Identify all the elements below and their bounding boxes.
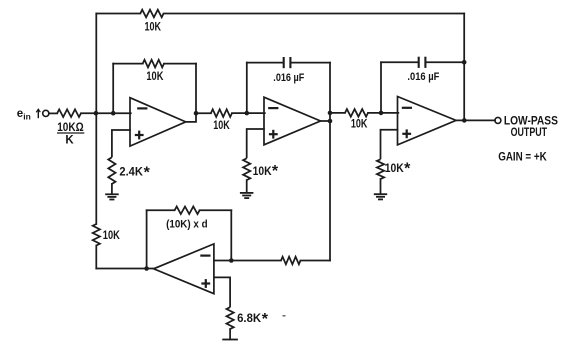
wire op1 feedback top-right segment bbox=[164, 63, 196, 65]
resistor 6.8K* bbox=[227, 307, 234, 329]
op-amp U2 triangle bbox=[264, 97, 321, 145]
wire op4 minus input bbox=[214, 260, 281, 262]
resistor 10K (bottom left) bbox=[93, 224, 100, 246]
wire op1 feedback up-left bbox=[112, 64, 114, 114]
input terminal circle bbox=[43, 110, 49, 116]
wire cap2 up-left bbox=[246, 63, 248, 114]
svg-text:*: * bbox=[144, 165, 151, 182]
wire terminal to R input bbox=[49, 112, 57, 114]
wire R to op1 minus input, through nodes bbox=[81, 112, 131, 114]
wire cap2 top-left bbox=[247, 62, 284, 64]
resistor 2.4K* bbox=[108, 157, 115, 184]
top wire left segment bbox=[96, 13, 140, 15]
node: op1 feedback tap bbox=[111, 111, 116, 116]
right vertical wire (top wire down to output node) bbox=[463, 14, 465, 121]
svg-text:10KΩ: 10KΩ bbox=[57, 122, 83, 134]
wire op4 feedback top-right bbox=[200, 209, 232, 211]
wire corner to op4 output bbox=[96, 268, 154, 270]
svg-text:6.8K: 6.8K bbox=[237, 313, 262, 325]
resistor 10K* (op2) bbox=[243, 158, 250, 180]
ground (op4 plus) bbox=[222, 339, 238, 341]
node: input summing junction bbox=[94, 111, 99, 116]
resistor 10KΩ/K (input) bbox=[57, 109, 81, 117]
wire op1 output to R2 bbox=[196, 112, 211, 114]
resistor 10K (top feedback) bbox=[140, 10, 163, 18]
svg-text:10K: 10K bbox=[145, 21, 162, 33]
ground (op2 plus) bbox=[240, 192, 254, 194]
resistor 10K (stage2 input) bbox=[211, 109, 232, 117]
wire op4 plus input bbox=[214, 277, 230, 307]
node: op2 output lower bbox=[328, 119, 333, 124]
svg-text:10K: 10K bbox=[146, 71, 164, 83]
svg-text:.016 µF: .016 µF bbox=[407, 71, 439, 83]
wire op3 output to terminal bbox=[456, 119, 495, 121]
wire op1 feedback top-left segment bbox=[113, 63, 143, 65]
wire op1 output jog bbox=[186, 113, 196, 122]
wire op1 feedback down to output node bbox=[195, 64, 197, 114]
input arrow bbox=[36, 109, 40, 118]
wire 2.4K to ground bbox=[111, 184, 113, 194]
svg-text:10K: 10K bbox=[103, 230, 121, 242]
capacitor C2 .016uF plates bbox=[419, 57, 426, 68]
wire R3 to op3 minus bbox=[368, 112, 398, 114]
left vertical wire down to 10K bbox=[95, 113, 97, 224]
svg-text:LOW-PASS: LOW-PASS bbox=[504, 115, 558, 127]
op-amp U3 triangle bbox=[398, 97, 457, 145]
label 10K* (op3) bbox=[385, 160, 411, 177]
wire R2 to op2 minus bbox=[232, 112, 265, 114]
wire cap3 top-left bbox=[381, 61, 418, 63]
svg-text:10K: 10K bbox=[213, 120, 230, 132]
node: op1 output bbox=[194, 111, 199, 116]
capacitor C1 .016uF plates bbox=[284, 57, 291, 68]
top wire right segment bbox=[164, 13, 465, 15]
op-amp U2 plus sign bbox=[269, 130, 278, 139]
svg-text:GAIN = +K: GAIN = +K bbox=[498, 151, 547, 163]
resistor (unlabeled, bottom) bbox=[281, 257, 301, 265]
svg-text:10K: 10K bbox=[253, 166, 273, 178]
svg-text:e: e bbox=[17, 108, 23, 120]
wire op3 plus input bbox=[381, 130, 399, 160]
node: op4 minus bbox=[229, 258, 234, 263]
ground (op1 plus) bbox=[105, 193, 119, 195]
wire op4 feedback up bbox=[146, 210, 148, 268]
wire cap3 up-left bbox=[380, 62, 382, 113]
node: cap3 right / top wire junction bbox=[462, 60, 467, 65]
op-amp U1 plus sign bbox=[135, 131, 144, 140]
svg-text:K: K bbox=[65, 134, 74, 146]
node: op2 input bbox=[245, 111, 250, 116]
resistor (10K) x d bbox=[175, 207, 200, 215]
wire cap2 top-right bbox=[291, 62, 330, 64]
left vertical wire (input node up to top wire) bbox=[95, 14, 97, 114]
svg-text:.016 µF: .016 µF bbox=[273, 72, 304, 84]
resistor 10K* (op3) bbox=[377, 159, 384, 179]
svg-text:*: * bbox=[262, 311, 269, 328]
svg-text:OUTPUT: OUTPUT bbox=[511, 127, 547, 139]
op-amp U3 plus sign bbox=[402, 129, 411, 138]
node: low-pass output bbox=[462, 118, 467, 123]
svg-text:10K: 10K bbox=[351, 119, 368, 131]
svg-text:*: * bbox=[404, 160, 411, 177]
wire op2 output tip bbox=[321, 120, 331, 122]
small mark right of 6.8K label bbox=[283, 315, 286, 317]
wire op1 plus input bbox=[112, 130, 131, 157]
node: op3 input bbox=[379, 111, 384, 116]
resistor 10K (stage3 input) bbox=[345, 109, 368, 117]
op-amp U4 triangle (points left) bbox=[154, 244, 214, 294]
output terminal circle bbox=[495, 117, 501, 123]
ground (op3 plus) bbox=[374, 193, 387, 195]
wire op2 output to R3 bbox=[330, 112, 345, 114]
label 10KΩ over K fraction bbox=[57, 122, 84, 146]
wire 10K down to corner bbox=[95, 246, 97, 269]
wire 6.8K to ground bbox=[229, 329, 231, 339]
svg-text:*: * bbox=[272, 163, 279, 180]
op-amp U1 minus sign bbox=[138, 107, 146, 109]
svg-text:(10K) x d: (10K) x d bbox=[166, 218, 208, 230]
wire resistor to op2 output vertical bbox=[301, 260, 331, 262]
node: op4 output bbox=[144, 266, 149, 271]
node: op2 output upper bbox=[328, 111, 333, 116]
label 10K* (op2) bbox=[253, 163, 279, 180]
wire 10K* op3 to ground bbox=[380, 179, 382, 194]
input label e_in bbox=[17, 108, 31, 121]
vertical wire op2 output / cap2 right / down to bottom loop bbox=[329, 63, 331, 261]
op-amp U1 triangle bbox=[130, 98, 186, 146]
label 6.8K* bbox=[237, 311, 269, 328]
op-amp U4 minus sign bbox=[201, 255, 209, 257]
op-amp U2 minus sign bbox=[269, 107, 277, 109]
wire cap3 top-right bbox=[426, 61, 465, 63]
wire op4 feedback down to minus node bbox=[230, 210, 232, 260]
wire op4 feedback top-left bbox=[147, 209, 175, 211]
svg-text:in: in bbox=[23, 112, 31, 122]
svg-text:2.4K: 2.4K bbox=[119, 167, 143, 179]
svg-text:10K: 10K bbox=[385, 163, 405, 175]
op-amp U3 minus sign bbox=[403, 107, 411, 109]
wire 10K* op2 to ground bbox=[246, 180, 248, 193]
op-amp U4 plus sign bbox=[201, 279, 210, 288]
label 2.4K* bbox=[119, 165, 150, 182]
wire op2 plus input bbox=[247, 129, 265, 158]
resistor 10K (op1 feedback) bbox=[143, 60, 164, 68]
